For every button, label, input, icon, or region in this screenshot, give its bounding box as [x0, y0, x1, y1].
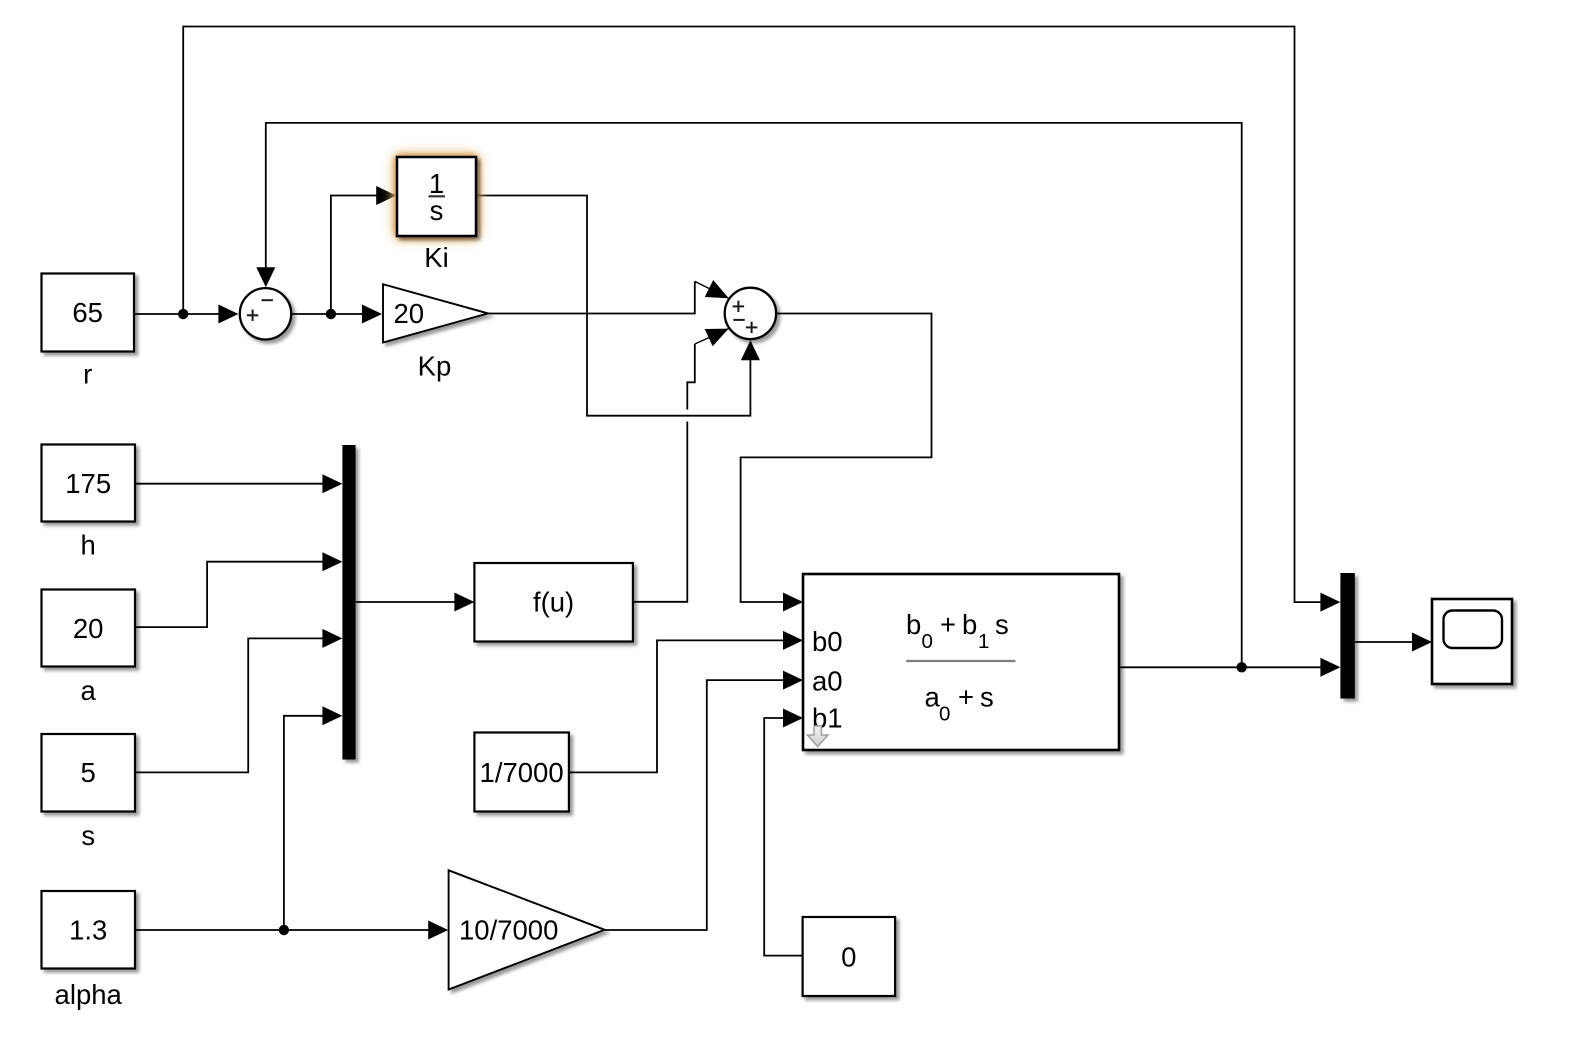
highlight glow for integrator Ki — [391, 151, 483, 243]
constant block s (value 5) — [42, 734, 136, 812]
svg-text:1/7000: 1/7000 — [480, 757, 564, 788]
fcn block f(u) — [474, 563, 633, 642]
svg-text:+: + — [958, 682, 974, 713]
transfer-fcn block TF (b0+b1s)/(a0+s) — [803, 574, 1119, 750]
svg-text:s: s — [81, 820, 95, 851]
svg-text:r: r — [83, 359, 92, 390]
wire: gain G2 output to transfer-fcn port a0 — [605, 680, 801, 930]
sum block S1 (+-) — [240, 288, 291, 339]
svg-text:+: + — [940, 609, 956, 640]
wire: integrator Ki output to sum S2 bottom + input — [476, 196, 750, 416]
svg-text:175: 175 — [65, 468, 111, 499]
svg-text:1: 1 — [978, 630, 989, 653]
constant block r (value 65) — [42, 274, 135, 352]
svg-text:alpha: alpha — [55, 979, 123, 1010]
svg-text:10/7000: 10/7000 — [459, 915, 558, 946]
junction D on transfer-fcn output net y — [1237, 662, 1247, 672]
svg-text:b: b — [906, 609, 921, 640]
sum block S2 (++-) — [725, 288, 776, 339]
wire: sum S2 output to transfer-fcn TF port 1 — [741, 314, 932, 603]
wire: constant a output to mux1 port 2 — [136, 562, 341, 627]
constant block a (value 20) — [42, 590, 136, 667]
svg-text:Ki: Ki — [424, 242, 448, 273]
svg-text:h: h — [81, 530, 96, 561]
wire: junction B up to integrator Ki input — [331, 196, 394, 315]
wire: net y feedback from junction D to sum S1 top input — [266, 123, 1242, 667]
svg-text:20: 20 — [394, 298, 425, 329]
wire: fcn f(u) output to sum S2 lower-left - input (hop over Ki net) — [633, 422, 687, 602]
svg-text:s: s — [995, 609, 1009, 640]
svg-text:s: s — [980, 682, 994, 713]
mux block mux1 (4 inputs) — [342, 445, 355, 760]
wire: sum S1 output to gain Kp input — [291, 313, 380, 315]
wire: junction C up to mux1 port 4 — [284, 716, 340, 930]
wire: transfer-fcn TF output to mux2 port 2 — [1119, 666, 1338, 668]
constant block alpha (value 1.3) — [42, 891, 136, 969]
svg-text:a0: a0 — [812, 666, 843, 697]
constant block 0 (output on left) — [803, 917, 896, 996]
scope block — [1432, 599, 1512, 684]
wire: constant 1/7000 output to transfer-fcn port b0 — [569, 640, 801, 772]
wire: constant 0 output to transfer-fcn port b1 — [764, 718, 802, 956]
wire: constant alpha output to gain G2 input — [136, 929, 447, 931]
wire: constant r output to sum S1 + input — [134, 313, 237, 315]
wire: constant h output to mux1 port 1 — [136, 483, 341, 485]
wire: constant s output to mux1 port 3 — [136, 638, 341, 772]
integrator block Ki (1/s) — [397, 157, 476, 236]
junction C on net alpha — [279, 925, 289, 935]
svg-text:b0: b0 — [812, 626, 843, 657]
badge: gray down-arrow on TF block — [807, 726, 828, 747]
junction B on sum S1 output net e — [326, 309, 336, 319]
gain block Kp (value 20) — [383, 284, 488, 342]
svg-text:a: a — [81, 675, 97, 706]
constant block h (value 175) — [42, 445, 136, 522]
svg-text:b: b — [962, 609, 977, 640]
svg-text:0: 0 — [922, 630, 933, 653]
svg-text:65: 65 — [72, 297, 103, 328]
gain block G2 (value 10/7000) — [449, 870, 605, 989]
constant block 1/7000 — [474, 733, 569, 812]
svg-text:0: 0 — [841, 941, 856, 972]
svg-text:s: s — [430, 195, 444, 226]
wire: net r feedback from junction A to mux2 port 1 — [183, 27, 1338, 603]
junction A on net r — [178, 309, 188, 319]
wire: gain Kp output to sum S2 upper-left + input — [488, 281, 695, 313]
svg-text:0: 0 — [939, 703, 950, 726]
wire: mux1 output to fcn f(u) input — [356, 601, 472, 603]
svg-text:f(u): f(u) — [533, 587, 574, 618]
svg-text:1.3: 1.3 — [69, 915, 107, 946]
wire: mux2 output to scope input — [1355, 641, 1430, 643]
svg-text:5: 5 — [81, 757, 96, 788]
mux block mux2 (2 inputs) — [1340, 573, 1354, 699]
svg-text:20: 20 — [73, 613, 104, 644]
svg-text:Kp: Kp — [418, 351, 452, 382]
